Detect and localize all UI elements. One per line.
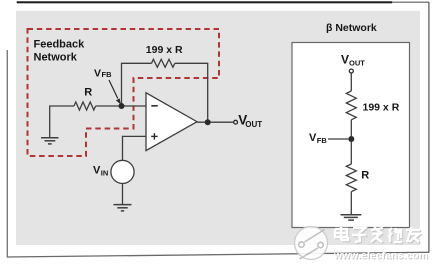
ground (beta network): [341, 215, 362, 220]
svg-text:R: R: [361, 169, 369, 181]
wire: resistor R to inverting input (through node VFB): [96, 105, 146, 107]
resistor R (beta, vertical zigzag): [346, 164, 356, 192]
node VFB junction dot: [119, 103, 125, 109]
wire: VFB label tick: [328, 138, 348, 140]
svg-text:FB: FB: [317, 136, 328, 145]
svg-text:199 x R: 199 x R: [146, 44, 183, 56]
svg-text:OUT: OUT: [349, 59, 365, 68]
svg-text:β Network: β Network: [326, 22, 377, 34]
black top rule: [17, 1, 393, 3]
wire: resistor to node VFB (beta): [350, 120, 352, 139]
figure frame left edge: [6, 50, 8, 258]
svg-text:IN: IN: [101, 169, 109, 178]
svg-text:V: V: [341, 52, 349, 66]
wire: resistor R to ground (beta): [350, 192, 352, 215]
wire: node to resistor R (beta): [350, 142, 352, 164]
node VFB (beta) junction dot: [348, 136, 354, 142]
schematic panel: [16, 11, 420, 245]
svg-text:V: V: [309, 132, 317, 144]
feedback network red dashed boundary: [28, 29, 220, 156]
source VIN (circle): [111, 160, 134, 183]
beta network box: [292, 43, 410, 228]
svg-text:199 x R: 199 x R: [363, 102, 400, 114]
svg-text:OUT: OUT: [245, 120, 262, 129]
svg-text:Feedback: Feedback: [34, 39, 86, 51]
op-amp U1: [146, 93, 197, 151]
wire: left ground to resistor R: [50, 106, 74, 137]
wire: 199xR right end down to output node: [175, 63, 208, 122]
svg-text:R: R: [84, 86, 92, 98]
watermark logo circle: [295, 227, 328, 260]
arrow from VFB label to node: [109, 80, 118, 99]
ground (below VIN): [114, 205, 132, 211]
figure frame top edge: [392, 1, 429, 3]
svg-text:FB: FB: [102, 70, 113, 79]
wire: non-inverting input to VIN source: [123, 136, 147, 160]
svg-text:V: V: [94, 67, 101, 79]
resistor 199xR (horizontal zigzag): [152, 59, 175, 67]
terminal VOUT (open circle): [234, 120, 238, 124]
wire: op-amp output to VOUT terminal: [197, 121, 233, 123]
svg-text:www.elecfans.com: www.elecfans.com: [333, 251, 428, 262]
svg-text:Network: Network: [34, 52, 78, 64]
wire: node VFB up to 199xR resistor: [122, 63, 152, 106]
svg-text:V: V: [93, 164, 101, 176]
wire: terminal to resistor 199xR (beta): [350, 73, 352, 91]
terminal VOUT (beta network, open circle): [349, 69, 353, 73]
op-amp plus sign: [151, 133, 157, 139]
ground (left, in feedback network): [41, 138, 59, 144]
resistor 199xR (beta, vertical zigzag): [346, 91, 356, 120]
figure frame bottom edge: [7, 252, 429, 257]
wire: VIN source to ground: [122, 184, 124, 205]
op-amp minus sign: [151, 105, 157, 107]
resistor R (horizontal zigzag): [74, 102, 96, 110]
node output junction dot: [205, 119, 211, 125]
figure frame right edge: [428, 2, 430, 253]
